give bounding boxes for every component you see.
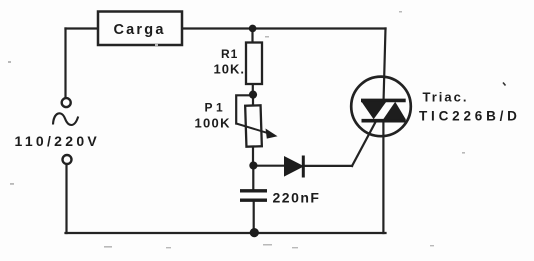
svg-text:110/220V: 110/220V [15, 133, 101, 149]
junction node D (cap/bottom rail) [250, 228, 259, 237]
svg-text:Carga: Carga [114, 22, 166, 38]
wire triac top lead [384, 29, 386, 99]
triac U1 TIC226B/D [351, 77, 411, 137]
P1 wiper arrow [236, 124, 269, 134]
resistor R1 [246, 43, 262, 85]
junction node C (P1/diac/cap) [249, 161, 257, 169]
load Carga [98, 12, 182, 46]
wire P1 bottom stub [252, 147, 254, 166]
wire left vertical lower [65, 165, 67, 234]
triac right triangle [383, 102, 406, 120]
wire R1 bottom stub [252, 84, 254, 95]
AC source top terminal [62, 98, 71, 107]
svg-text:R1: R1 [221, 47, 238, 61]
wire bottom horizontal [66, 232, 386, 234]
wire triac bottom lead [382, 121, 384, 233]
potentiometer P1 [236, 105, 277, 146]
wire top-left horizontal [66, 27, 99, 29]
triac left triangle [362, 102, 387, 119]
wire left vertical upper [64, 29, 66, 98]
diac D1 [285, 156, 304, 178]
wire capacitor bottom stub [253, 202, 255, 233]
wire diac to gate [304, 165, 353, 167]
AC source sine squiggle [53, 113, 78, 125]
triac top bar MT2 [361, 99, 406, 103]
wire gate diagonal [352, 122, 376, 167]
wire R1 top stub [251, 29, 253, 43]
wire junction to diac [254, 165, 285, 167]
wire capacitor top stub [252, 166, 254, 190]
svg-text:220nF: 220nF [273, 190, 321, 206]
capacitor C1 220nF [240, 191, 267, 200]
wire P1 top stub [252, 95, 254, 106]
wire top horizontal [182, 27, 386, 29]
junction node B (R1/P1) [249, 91, 257, 99]
svg-text:Triac.: Triac. [423, 90, 469, 105]
wire P1 wiper hook [236, 95, 250, 123]
svg-text:TIC226B/D: TIC226B/D [419, 109, 521, 124]
svg-text:P1: P1 [205, 101, 227, 115]
svg-text:10K.: 10K. [214, 62, 245, 77]
svg-text:100K: 100K [195, 116, 231, 131]
AC source 110/220V [15, 98, 101, 164]
AC source bottom terminal [63, 155, 72, 164]
scan speck [503, 83, 506, 86]
triac bottom bar MT1 [362, 119, 406, 123]
junction node A (R1 top) [249, 25, 257, 33]
